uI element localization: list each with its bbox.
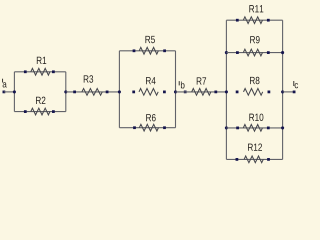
wire R11 branch <box>226 19 282 21</box>
wire middle right rail <box>175 51 177 128</box>
resistor R4 <box>132 77 165 95</box>
wire R6 branch <box>119 127 175 129</box>
wire R12 branch <box>226 158 282 160</box>
node a label <box>3 79 7 88</box>
resistor R11 <box>236 5 270 23</box>
junction right-left rail / main <box>225 90 228 93</box>
resistor R9 <box>236 36 270 56</box>
junction right-right rail / R9 <box>281 51 284 54</box>
node c terminal <box>293 91 296 94</box>
wire main R3 segment <box>66 91 120 93</box>
junction right-left rail / R9 <box>225 51 228 54</box>
wire right block left rail <box>225 20 227 159</box>
node c label <box>294 81 298 88</box>
resistor R6 <box>133 114 166 131</box>
resistor R8 <box>236 77 271 95</box>
wire R10 branch <box>226 127 282 129</box>
junction right rail / main <box>64 90 67 93</box>
resistor R10 <box>236 114 269 132</box>
node a terminal <box>3 91 6 94</box>
wire middle left rail <box>118 51 120 128</box>
node b label <box>179 81 184 88</box>
junction middle right rail / node b <box>174 90 177 93</box>
resistor R5 <box>133 36 166 54</box>
wire left rail <box>13 72 15 112</box>
resistor R3 <box>73 75 108 95</box>
wire right block right rail <box>282 20 284 159</box>
junction left rail / a <box>13 90 16 93</box>
junction right-left rail / R10 <box>225 126 228 129</box>
node b terminal <box>184 91 187 94</box>
resistor R12 <box>236 143 270 162</box>
wire main R7 segment <box>176 91 227 93</box>
resistor R2 <box>24 97 55 115</box>
wire R2 branch <box>14 111 65 113</box>
wire a stub <box>4 91 15 93</box>
wire left block right rail <box>65 72 67 112</box>
resistor R1 <box>24 57 55 75</box>
junction middle left rail <box>118 90 121 93</box>
wire R9 branch <box>226 52 282 54</box>
junction right-right rail / R10 <box>281 126 284 129</box>
wire c stub <box>283 91 295 93</box>
junction right-right rail / main <box>281 90 284 93</box>
wire R1 branch <box>14 71 65 73</box>
resistor R7 <box>192 77 217 95</box>
wire R5 branch <box>119 50 175 52</box>
